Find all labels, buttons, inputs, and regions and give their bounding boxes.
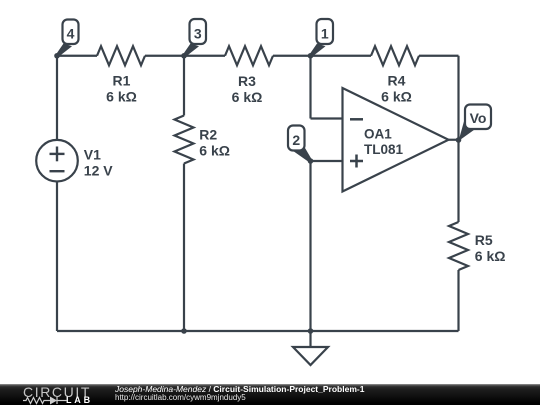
ground symbol bbox=[293, 347, 328, 365]
svg-text:V1: V1 bbox=[84, 147, 101, 163]
footer url text bbox=[115, 393, 246, 402]
wire node 2 stub to non-inverting input bbox=[311, 160, 343, 162]
resistor R3 bbox=[225, 46, 273, 65]
resistor R2 bbox=[175, 116, 194, 164]
footer bar bbox=[0, 384, 540, 405]
ground stub wire bbox=[309, 331, 311, 347]
node 4 flag tail bbox=[56, 44, 72, 58]
footer title text bbox=[115, 385, 364, 394]
node 2 flag tail bbox=[293, 147, 312, 163]
junction node 4 bbox=[54, 53, 60, 59]
resistor R4 bbox=[371, 46, 419, 65]
CircuitLab logo CIRCUIT bbox=[23, 385, 91, 399]
svg-text:R4: R4 bbox=[388, 73, 406, 89]
junction node 3 bbox=[181, 53, 187, 59]
svg-text:12 V: 12 V bbox=[84, 163, 113, 179]
svg-text:TL081: TL081 bbox=[364, 142, 404, 157]
node Vo label box bbox=[465, 105, 491, 130]
node 4 label box bbox=[63, 20, 79, 45]
svg-text:6 kΩ: 6 kΩ bbox=[106, 89, 137, 105]
svg-text:6 kΩ: 6 kΩ bbox=[199, 143, 230, 159]
node 3 flag tail bbox=[183, 44, 199, 58]
svg-text:R3: R3 bbox=[238, 73, 256, 89]
wire right rail down to Vo node bbox=[457, 56, 459, 140]
svg-text:2: 2 bbox=[292, 132, 300, 148]
op-amp U1 triangle body bbox=[343, 88, 449, 192]
wire R2 to bottom rail bbox=[183, 164, 185, 332]
wire R1 to node 3 bbox=[145, 55, 225, 57]
wire left rail bottom up to V1 minus bbox=[56, 182, 58, 332]
svg-text:1: 1 bbox=[321, 25, 329, 41]
wire node 2 down to bottom rail bbox=[309, 161, 311, 331]
svg-text:R1: R1 bbox=[113, 73, 131, 89]
CircuitLab logo resistor-diode glyph bbox=[23, 396, 71, 405]
resistor R1 bbox=[97, 46, 145, 65]
wire inverting input stub bbox=[311, 117, 343, 119]
wire top rail segment node4 to R1 bbox=[57, 55, 97, 57]
svg-text:6 kΩ: 6 kΩ bbox=[475, 248, 506, 264]
junction bottom ground bbox=[308, 328, 314, 334]
svg-text:3: 3 bbox=[194, 25, 202, 41]
svg-text:6 kΩ: 6 kΩ bbox=[381, 89, 412, 105]
junction bottom R2 bbox=[181, 328, 187, 334]
node 1 flag tail bbox=[309, 44, 325, 58]
resistor R5 bbox=[449, 222, 468, 270]
op-amp plus pin symbol bbox=[350, 155, 363, 168]
op-amp minus pin symbol bbox=[350, 118, 363, 121]
node Vo flag tail bbox=[459, 120, 477, 142]
wire op-amp output to right rail bbox=[449, 139, 459, 141]
wire R3 to node 1 bbox=[273, 55, 371, 57]
svg-text:R5: R5 bbox=[475, 232, 493, 248]
junction node Vo bbox=[456, 137, 462, 143]
svg-text:OA1: OA1 bbox=[364, 126, 392, 141]
V1 minus sign bbox=[50, 170, 65, 172]
wire node 1 down to op-amp inverting input bbox=[309, 56, 311, 119]
wire bottom rail bbox=[57, 330, 459, 332]
CircuitLab logo LAB bbox=[66, 396, 93, 405]
junction node 2 bbox=[308, 158, 314, 164]
junction node 1 bbox=[308, 53, 314, 59]
svg-text:4: 4 bbox=[67, 25, 75, 41]
svg-text:R2: R2 bbox=[199, 127, 217, 143]
V1 plus sign bbox=[50, 147, 65, 162]
wire node 3 down to R2 bbox=[183, 56, 185, 116]
svg-text:6 kΩ: 6 kΩ bbox=[232, 89, 263, 105]
voltage source V1 bbox=[36, 140, 78, 182]
node 3 label box bbox=[190, 19, 207, 44]
svg-text:Vo: Vo bbox=[470, 110, 487, 126]
wire R4 to right rail corner bbox=[419, 55, 459, 57]
node 1 label box bbox=[317, 19, 334, 44]
wire V1 plus up to node 4 bbox=[56, 56, 58, 140]
wire R5 to bottom rail bbox=[457, 270, 459, 331]
node 2 label box bbox=[288, 126, 305, 151]
wire Vo node down to R5 bbox=[457, 140, 459, 222]
